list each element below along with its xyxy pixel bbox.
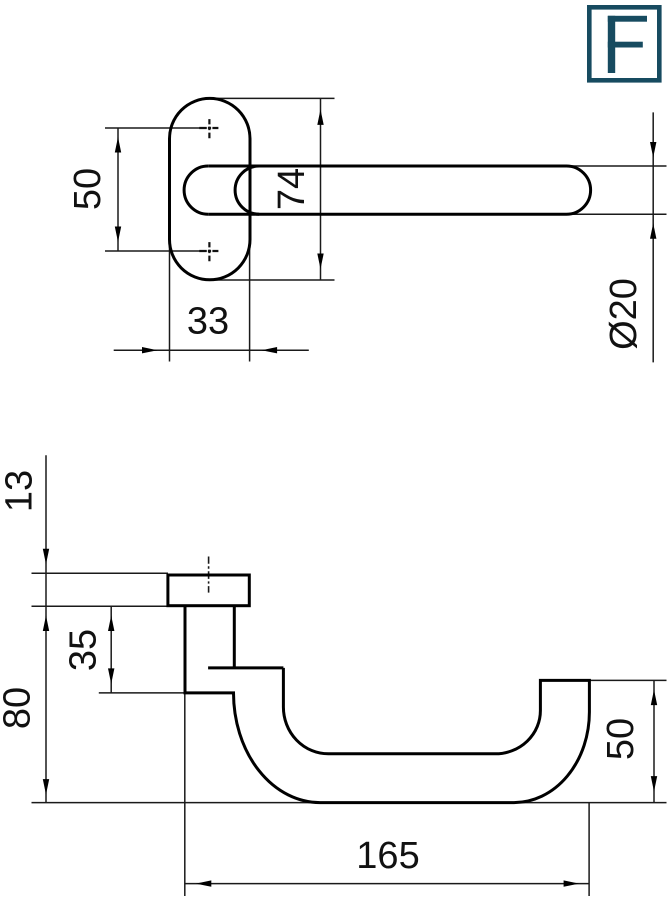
svg-text:74: 74	[271, 168, 313, 210]
svg-text:50: 50	[600, 718, 642, 760]
svg-text:35: 35	[63, 629, 105, 671]
svg-text:80: 80	[0, 687, 39, 729]
svg-text:33: 33	[187, 301, 229, 343]
svg-text:13: 13	[0, 470, 41, 512]
svg-text:Ø20: Ø20	[603, 278, 645, 350]
svg-text:165: 165	[356, 835, 419, 877]
svg-text:50: 50	[67, 168, 109, 210]
